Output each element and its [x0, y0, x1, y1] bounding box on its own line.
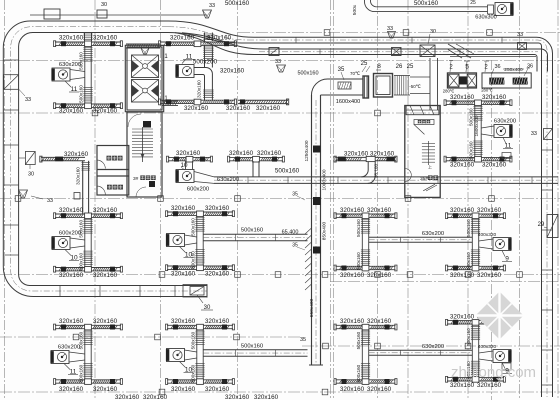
svg-text:35: 35 — [292, 192, 298, 198]
duct middle band 600x200 — [214, 176, 558, 178]
svg-text:630x200: 630x200 — [422, 231, 444, 237]
equipment top boundary — [450, 56, 536, 58]
svg-text:630x200: 630x200 — [422, 344, 444, 350]
elevator shaft — [125, 45, 168, 111]
damper 30 beside left duct — [19, 152, 36, 178]
svg-text:320x160: 320x160 — [220, 68, 245, 75]
svg-text:500x160: 500x160 — [275, 168, 300, 175]
svg-text:500x160: 500x160 — [414, 0, 439, 7]
grid axis line y32 — [238, 32, 560, 34]
svg-text:3#: 3# — [133, 176, 139, 182]
damper on run 2 right — [392, 48, 402, 56]
branch header row2 col3 — [334, 151, 397, 162]
svg-text:320x160: 320x160 — [226, 105, 251, 112]
svg-text:500x160: 500x160 — [191, 331, 196, 349]
svg-text:320x160: 320x160 — [340, 318, 365, 325]
fan coil unit A2 row1 col2 — [159, 35, 251, 113]
svg-text:25: 25 — [407, 64, 414, 70]
svg-text:320x160: 320x160 — [93, 272, 118, 279]
svg-text:26: 26 — [396, 64, 403, 70]
svg-text:320x160: 320x160 — [171, 205, 196, 212]
svg-text:500x160: 500x160 — [225, 0, 250, 7]
svg-text:5: 5 — [465, 64, 469, 71]
top pipe line — [30, 14, 207, 16]
svg-text:320x160: 320x160 — [477, 207, 502, 214]
svg-text:400x320: 400x320 — [478, 232, 497, 238]
svg-text:320x160: 320x160 — [450, 313, 475, 320]
svg-text:500x160: 500x160 — [79, 252, 84, 270]
flexible connector 26 25 — [394, 64, 422, 95]
damper 33 on run 1 right — [517, 32, 527, 50]
svg-text:500x200: 500x200 — [193, 59, 218, 66]
svg-text:320x160: 320x160 — [205, 386, 230, 393]
svg-text:36: 36 — [494, 64, 500, 70]
grid axis line y281 right — [330, 281, 560, 283]
svg-text:320x160: 320x160 — [205, 205, 230, 212]
svg-text:zhulong.com: zhulong.com — [451, 364, 536, 381]
small box r1 — [502, 153, 511, 159]
duct run 2 — [264, 49, 548, 72]
svg-text:320x160: 320x160 — [450, 207, 475, 214]
AHU intake duct with grille 35 — [321, 67, 364, 105]
svg-text:320x160: 320x160 — [176, 150, 201, 157]
fan coil unit I1 row4 col3 — [334, 318, 397, 393]
svg-text:33: 33 — [209, 3, 215, 9]
bellmouth 33 on grid line — [387, 26, 396, 38]
svg-text:33: 33 — [275, 59, 281, 65]
fan coil unit G row4 col2 — [166, 318, 308, 393]
svg-text:320x160: 320x160 — [254, 394, 279, 400]
riser elbow from header to band — [361, 162, 378, 184]
svg-text:35: 35 — [338, 67, 345, 73]
grille header row above band — [167, 150, 285, 177]
svg-text:320x160: 320x160 — [344, 151, 369, 158]
svg-text:320x160: 320x160 — [64, 151, 89, 158]
svg-text:630x200: 630x200 — [58, 345, 80, 351]
fan coil unit J row2 right — [444, 94, 516, 169]
svg-text:320x160: 320x160 — [184, 105, 209, 112]
svg-text:320x160: 320x160 — [477, 272, 502, 279]
svg-text:320x160: 320x160 — [256, 105, 281, 112]
fan coil unit A row1 col1 — [51, 35, 122, 115]
svg-text:320x160: 320x160 — [170, 35, 195, 42]
exhaust grille box 36 — [482, 64, 533, 89]
svg-text:33: 33 — [517, 32, 523, 38]
svg-text:35: 35 — [300, 337, 306, 343]
duct joint ticks right riser — [542, 149, 553, 151]
svg-text:25: 25 — [470, 0, 476, 6]
svg-text:-50℃: -50℃ — [409, 84, 422, 89]
svg-text:320x160: 320x160 — [171, 318, 196, 325]
svg-text:320x160: 320x160 — [171, 386, 196, 393]
svg-text:320x160: 320x160 — [59, 386, 84, 393]
duct main loop inner wall — [19, 33, 207, 286]
duct end cap bottom run — [206, 285, 208, 298]
fan coil unit C row3 col1 — [51, 207, 122, 279]
damper 33 on left duct — [4, 75, 31, 103]
svg-text:630x200: 630x200 — [59, 62, 81, 68]
svg-text:500x160: 500x160 — [469, 108, 474, 126]
svg-text:320x160: 320x160 — [59, 108, 84, 115]
pipe box b — [97, 10, 107, 18]
svg-text:500x160: 500x160 — [469, 141, 474, 159]
svg-text:320x160: 320x160 — [143, 394, 168, 400]
svg-text:500x160: 500x160 — [356, 331, 361, 349]
svg-text:320x160: 320x160 — [482, 94, 507, 101]
svg-text:1250x400: 1250x400 — [304, 140, 310, 161]
svg-text:30: 30 — [101, 2, 107, 8]
svg-text:320x160: 320x160 — [197, 80, 202, 98]
svg-text:70℃: 70℃ — [350, 71, 361, 76]
svg-text:320x160: 320x160 — [225, 394, 250, 400]
svg-text:320x160: 320x160 — [207, 35, 232, 42]
svg-text:33: 33 — [387, 26, 393, 32]
svg-text:8: 8 — [377, 63, 381, 70]
watermark logo — [476, 292, 524, 340]
duct S-split to runs 1 and 2 — [168, 21, 254, 37]
svg-text:320x160: 320x160 — [205, 271, 230, 278]
svg-text:29: 29 — [538, 222, 545, 228]
svg-text:320x160: 320x160 — [115, 394, 140, 400]
duct right riser — [541, 112, 543, 397]
extra grille bar right of A2 — [238, 99, 289, 112]
fan room with stair — [405, 106, 440, 198]
riser stub to unit A — [84, 33, 86, 42]
duct main loop outer wall — [3, 21, 207, 297]
fire damper 29 — [538, 215, 558, 238]
svg-text:320x160: 320x160 — [205, 318, 230, 325]
svg-text:500x160: 500x160 — [356, 252, 361, 270]
bellmouth 33 mid — [275, 59, 286, 72]
supply fans 2 and 5 — [443, 61, 493, 94]
small box r2 — [502, 363, 511, 370]
svg-text:320x160: 320x160 — [340, 272, 365, 279]
svg-text:320x160: 320x160 — [477, 382, 502, 389]
svg-text:320x160: 320x160 — [93, 207, 118, 214]
fan coil unit I2 row4 col4 — [369, 313, 512, 389]
svg-text:320x160: 320x160 — [59, 35, 84, 42]
riser stub to unit A2 — [204, 33, 206, 42]
svg-text:500x: 500x — [352, 4, 358, 15]
svg-text:500x160: 500x160 — [356, 364, 361, 382]
duct joint ticks run1 — [295, 37, 297, 43]
fan coil unit D row4 col1 — [50, 318, 122, 393]
damper on run 2 left — [269, 48, 279, 56]
svg-text:500x160: 500x160 — [79, 85, 84, 103]
svg-text:320x160: 320x160 — [229, 150, 254, 157]
duct to fan section — [410, 76, 430, 78]
svg-text:上: 上 — [428, 164, 432, 170]
transition into fan section — [448, 44, 471, 58]
svg-text:630x300: 630x300 — [475, 15, 496, 21]
svg-text:35: 35 — [292, 243, 298, 249]
fan coil 10 feeding middle band — [175, 162, 214, 184]
svg-text:320x160: 320x160 — [367, 207, 392, 214]
svg-text:320x160: 320x160 — [340, 207, 365, 214]
svg-text:30: 30 — [28, 172, 34, 178]
svg-text:500x160: 500x160 — [241, 343, 263, 349]
branch header and riser row2 col1 — [40, 151, 90, 214]
fan coil unit H1 row3 col3 — [334, 207, 397, 279]
svg-text:30: 30 — [430, 29, 436, 35]
svg-text:1600x400: 1600x400 — [336, 99, 361, 105]
duct run 1 — [254, 37, 553, 112]
fan section wall — [429, 58, 431, 110]
svg-text:500x160: 500x160 — [466, 219, 471, 237]
duct joint ticks run 2 — [319, 49, 321, 55]
svg-text:320x160: 320x160 — [450, 162, 475, 169]
duct vertical exhaust main — [282, 79, 330, 365]
duct top 500x160 — [376, 6, 487, 8]
duct main loop centerline — [11, 27, 207, 291]
svg-text:500x160: 500x160 — [79, 364, 84, 382]
svg-text:320x160: 320x160 — [59, 207, 84, 214]
svg-text:320x160: 320x160 — [450, 94, 475, 101]
electrical shaft rooms — [97, 146, 129, 196]
svg-text:320x160: 320x160 — [257, 150, 282, 157]
svg-text:35#: 35# — [420, 176, 428, 182]
svg-text:35.100: 35.100 — [374, 164, 379, 178]
svg-text:650x400: 650x400 — [309, 298, 315, 317]
fan coil unit F row3 col2 — [166, 205, 308, 278]
svg-text:320x160: 320x160 — [367, 318, 392, 325]
grille right of elevator — [162, 101, 178, 106]
svg-text:500x160: 500x160 — [191, 218, 196, 236]
damper 30 on bottom run — [183, 285, 213, 312]
svg-text:320x160: 320x160 — [450, 272, 475, 279]
svg-text:280℃: 280℃ — [443, 89, 455, 94]
svg-text:320x160: 320x160 — [482, 162, 507, 169]
svg-text:500x160: 500x160 — [241, 228, 263, 234]
svg-text:320x160: 320x160 — [93, 386, 118, 393]
svg-text:320x160: 320x160 — [340, 386, 365, 393]
fan coil unit H2 row3 col4 — [369, 207, 512, 279]
svg-text:320x160: 320x160 — [93, 35, 118, 42]
svg-text:25: 25 — [361, 61, 368, 67]
svg-text:320x160: 320x160 — [59, 272, 84, 279]
bellmouth 33 top — [203, 3, 216, 18]
grille above elevator — [126, 44, 160, 48]
duct joint ticks bottom run — [59, 286, 61, 297]
svg-text:630x200: 630x200 — [494, 119, 516, 125]
svg-text:320x160: 320x160 — [76, 167, 81, 185]
svg-text:500x160: 500x160 — [297, 71, 318, 77]
svg-text:400x320: 400x320 — [478, 344, 497, 350]
svg-text:320x160: 320x160 — [59, 318, 84, 325]
svg-text:500x160: 500x160 — [466, 328, 471, 346]
stair well 3# — [127, 112, 162, 197]
svg-text:630x200: 630x200 — [217, 177, 239, 183]
svg-text:320x160: 320x160 — [93, 108, 118, 115]
svg-text:1000x400: 1000x400 — [322, 169, 328, 190]
damper bar — [363, 76, 369, 98]
svg-text:320x160: 320x160 — [450, 382, 475, 389]
svg-text:500x160: 500x160 — [356, 219, 361, 237]
svg-text:320x160: 320x160 — [367, 272, 392, 279]
svg-text:320x160: 320x160 — [367, 386, 392, 393]
svg-text:850x400: 850x400 — [322, 221, 328, 240]
svg-text:320x160: 320x160 — [171, 271, 196, 278]
svg-text:600x200: 600x200 — [59, 231, 81, 237]
svg-text:33: 33 — [531, 131, 537, 137]
svg-text:250x400: 250x400 — [504, 67, 523, 73]
bellmouth 33 bottom-left — [19, 190, 54, 204]
damper 33 on right riser — [531, 129, 553, 140]
svg-text:320x160: 320x160 — [93, 318, 118, 325]
svg-text:33: 33 — [47, 198, 53, 204]
roof fan top right — [470, 0, 513, 21]
svg-text:500x160: 500x160 — [466, 252, 471, 270]
pipe box a — [44, 9, 60, 19]
silencer 30 X-box — [420, 29, 436, 57]
svg-text:33: 33 — [25, 97, 31, 103]
svg-text:600x200: 600x200 — [187, 187, 209, 193]
AHU box 8 — [374, 63, 393, 97]
duct joint ticks left duct — [4, 59, 19, 61]
